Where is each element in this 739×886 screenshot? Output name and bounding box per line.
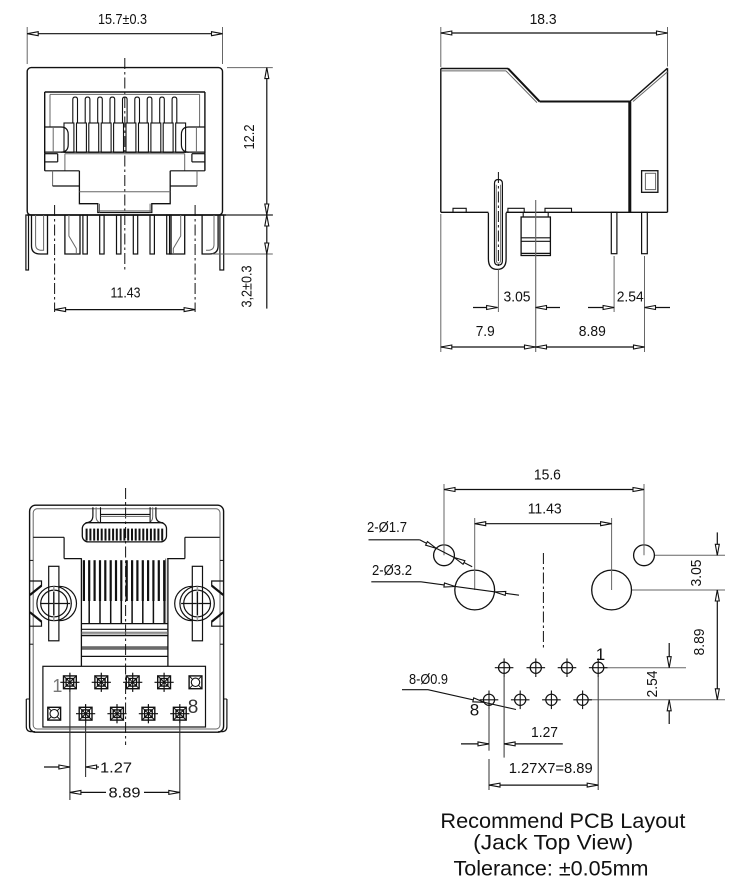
svg-text:2.54: 2.54 — [617, 289, 644, 306]
svg-text:11.43: 11.43 — [111, 285, 141, 302]
svg-text:7.9: 7.9 — [476, 323, 495, 340]
svg-text:Tolerance: ±0.05mm: Tolerance: ±0.05mm — [454, 857, 649, 881]
svg-text:1.27: 1.27 — [100, 760, 132, 777]
svg-text:3.05: 3.05 — [504, 289, 531, 306]
svg-text:2-Ø3.2: 2-Ø3.2 — [372, 562, 412, 579]
svg-text:Recommend PCB Layout: Recommend PCB Layout — [440, 809, 685, 833]
svg-text:8.89: 8.89 — [579, 323, 606, 340]
svg-text:8-Ø0.9: 8-Ø0.9 — [409, 671, 448, 688]
svg-text:3,2±0.3: 3,2±0.3 — [239, 266, 256, 308]
svg-text:8: 8 — [470, 701, 479, 720]
svg-text:8.89: 8.89 — [109, 785, 141, 802]
svg-text:(Jack Top View): (Jack Top View) — [473, 831, 633, 855]
svg-text:18.3: 18.3 — [530, 11, 557, 28]
svg-text:1: 1 — [596, 645, 605, 664]
svg-text:2-Ø1.7: 2-Ø1.7 — [367, 519, 407, 536]
svg-text:8.89: 8.89 — [691, 629, 708, 656]
svg-text:1.27: 1.27 — [531, 724, 558, 741]
svg-text:15.7±0.3: 15.7±0.3 — [98, 11, 147, 28]
svg-text:11.43: 11.43 — [528, 501, 562, 518]
svg-text:8: 8 — [188, 697, 199, 718]
svg-text:2.54: 2.54 — [644, 671, 661, 698]
svg-text:1.27X7=8.89: 1.27X7=8.89 — [509, 760, 593, 777]
svg-text:15.6: 15.6 — [534, 467, 561, 484]
svg-text:1: 1 — [52, 676, 62, 696]
svg-text:12.2: 12.2 — [241, 125, 258, 150]
svg-text:3.05: 3.05 — [688, 560, 705, 587]
